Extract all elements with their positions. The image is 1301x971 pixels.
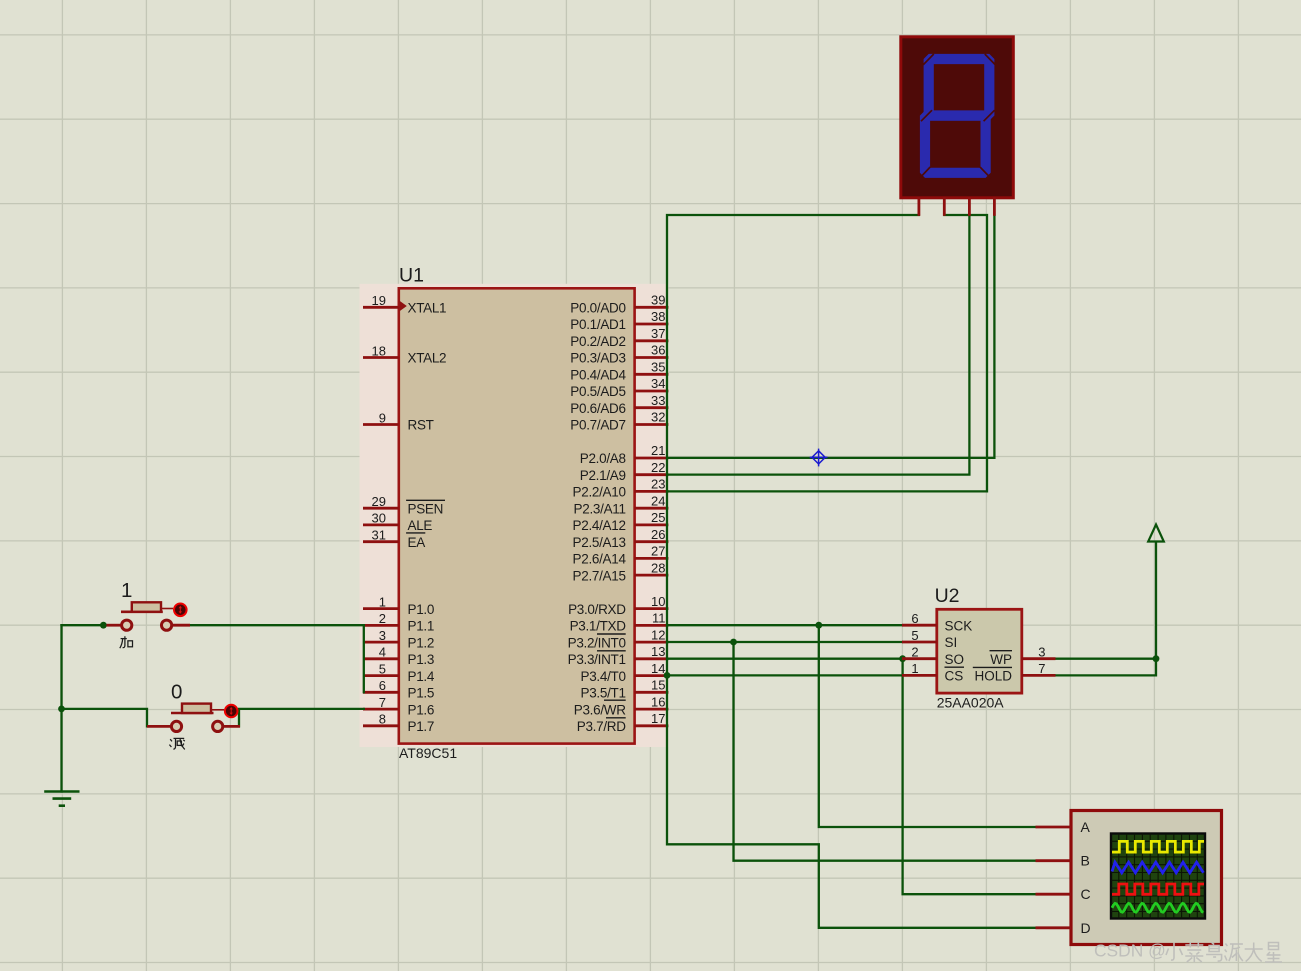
svg-text:2: 2: [911, 645, 918, 660]
svg-text:P3.6/WR: P3.6/WR: [574, 702, 626, 717]
svg-text:HOLD: HOLD: [974, 669, 1012, 684]
U1 pin 22 (P2.1/A9) stub: [580, 460, 669, 483]
wire button2 horizontal: [62, 709, 148, 727]
U2 pin 5 stub: [902, 628, 937, 643]
U1 pin 25 (P2.4/A12) stub: [573, 510, 669, 533]
wire display-c link: [668, 216, 969, 475]
svg-text:D: D: [1081, 920, 1091, 936]
U1 pin 18 (XTAL2) stub: [363, 343, 446, 365]
wire button2 to P1.6: [239, 709, 364, 727]
PSEN overline: [406, 499, 445, 501]
svg-text:EA: EA: [408, 535, 426, 550]
svg-text:16: 16: [651, 694, 665, 709]
svg-text:AT89C51: AT89C51: [399, 745, 457, 761]
svg-text:2: 2: [379, 611, 386, 626]
EA overline: [406, 532, 425, 534]
svg-text:P2.7/A15: P2.7/A15: [573, 568, 626, 583]
svg-text:36: 36: [651, 343, 665, 358]
scope input A stub: [1036, 826, 1072, 829]
wire SO branch to scope C: [903, 659, 1036, 895]
svg-text:34: 34: [651, 376, 665, 391]
svg-text:P0.2/AD2: P0.2/AD2: [570, 334, 625, 349]
U1 pin 3 (P1.2) stub: [363, 628, 434, 650]
watermark 星: [1265, 943, 1282, 963]
mcu U1 AT89C51: [360, 265, 669, 762]
svg-text:4: 4: [379, 645, 386, 660]
junction SCK/scopeA: [815, 622, 822, 629]
push button "1" (add): [106, 579, 190, 630]
U2 pin 2 stub: [902, 645, 937, 660]
oscilloscope screen: [1111, 834, 1205, 919]
svg-text:P3.0/RXD: P3.0/RXD: [568, 602, 626, 617]
U1 pin 15 (P3.5/T1) stub: [581, 678, 669, 701]
svg-text:P3.3/INT1: P3.3/INT1: [568, 652, 626, 667]
junction SO/scopeC: [899, 655, 906, 662]
U1 pin 1 (P1.0) stub: [363, 594, 434, 616]
trace B blue: [1112, 862, 1203, 873]
WR overline: [604, 699, 626, 701]
U1 pin 11 (P3.1/TXD) stub: [570, 611, 669, 634]
svg-text:P0.1/AD1: P0.1/AD1: [570, 317, 625, 332]
INT0 overline: [597, 633, 626, 635]
trace C red: [1112, 884, 1204, 894]
svg-text:C: C: [1081, 886, 1091, 902]
svg-text:25AA020A: 25AA020A: [937, 695, 1005, 711]
U1 pin 36 (P0.3/AD3) stub: [570, 343, 668, 366]
svg-text:ALE: ALE: [408, 518, 433, 533]
U1 pin 4 (P1.3) stub: [363, 645, 434, 667]
U1 pin 28 (P2.7/A15) stub: [573, 560, 669, 583]
svg-text:13: 13: [651, 644, 665, 659]
display pin 2 stub: [943, 197, 946, 216]
scope input C stub: [1036, 893, 1072, 896]
svg-text:P2.5/A13: P2.5/A13: [573, 535, 626, 550]
svg-text:32: 32: [651, 410, 665, 425]
svg-text:30: 30: [372, 511, 386, 526]
svg-text:CS: CS: [945, 669, 964, 684]
origin marker (blue crosshair): [810, 449, 828, 467]
trace A yellow: [1112, 841, 1204, 852]
U1 pin 14 (P3.4/T0) stub: [581, 661, 669, 684]
svg-text:7: 7: [379, 695, 386, 710]
7-seg segment notches: [919, 54, 995, 178]
svg-text:XTAL2: XTAL2: [408, 351, 447, 366]
svg-text:26: 26: [651, 527, 665, 542]
svg-text:P1.5: P1.5: [408, 686, 435, 701]
svg-text:21: 21: [651, 443, 665, 458]
trace D green: [1112, 903, 1204, 912]
svg-text:P1.1: P1.1: [408, 619, 435, 634]
svg-text:6: 6: [911, 611, 918, 626]
7-seg digit 8 segments: [925, 59, 989, 173]
U1 pin 21 (P2.0/A8) stub: [580, 443, 669, 466]
svg-text:P1.3: P1.3: [408, 652, 435, 667]
junction WP/HOLD/power: [1153, 655, 1160, 662]
U1 pin 37 (P0.2/AD2) stub: [570, 326, 668, 349]
eeprom U2 25AA020A: [935, 585, 1022, 711]
svg-text:P1.0: P1.0: [408, 602, 435, 617]
svg-text:RST: RST: [408, 418, 434, 433]
U2 pin 6 stub: [902, 611, 937, 626]
wire P3.4 to U2 CS: [668, 674, 902, 676]
U1 pin 24 (P2.3/A11) stub: [574, 493, 669, 516]
oscilloscope: [1036, 811, 1222, 945]
svg-text:22: 22: [651, 460, 665, 475]
svg-text:9: 9: [379, 410, 386, 425]
svg-text:18: 18: [372, 343, 386, 358]
svg-text:27: 27: [651, 544, 665, 559]
U1 pin 2 (P1.1) stub: [363, 611, 434, 633]
svg-text:A: A: [1081, 819, 1091, 835]
U1 pin 27 (P2.6/A14) stub: [573, 544, 669, 567]
svg-text:8: 8: [379, 712, 386, 727]
U2 pin 7 stub: [1022, 661, 1056, 676]
wire SCK branch to scope A: [819, 625, 1036, 827]
svg-text:0: 0: [171, 681, 182, 704]
U2 pin 3 stub: [1022, 645, 1056, 660]
svg-text:B: B: [1081, 853, 1090, 869]
svg-text:29: 29: [372, 494, 386, 509]
svg-text:U2: U2: [935, 585, 960, 607]
svg-text:28: 28: [651, 560, 665, 575]
wire P1.1-P1.5 bus vertical: [363, 625, 365, 692]
svg-text:P1.6: P1.6: [408, 702, 435, 717]
svg-text:1: 1: [121, 579, 132, 602]
watermark 大: [1245, 943, 1263, 962]
junction P3.4 node: [664, 672, 671, 679]
svg-text:33: 33: [651, 393, 665, 408]
U1 pin 5 (P1.4) stub: [363, 661, 435, 683]
wire P3.3 to U2 SO: [668, 658, 902, 660]
svg-text:P1.7: P1.7: [408, 719, 435, 734]
wire P3.2 to U2 SI: [668, 641, 902, 643]
wire ground vertical: [60, 625, 62, 791]
wire SI branch to scope B: [734, 642, 1036, 861]
svg-text:P3.1/TXD: P3.1/TXD: [570, 619, 627, 634]
svg-text:P0.0/AD0: P0.0/AD0: [570, 301, 625, 316]
watermark 菜: [1185, 942, 1203, 962]
watermark CSDN: [1094, 941, 1166, 961]
wire P3.1 to U2 SCK: [668, 624, 902, 626]
svg-text:P0.3/AD3: P0.3/AD3: [570, 351, 625, 366]
svg-text:14: 14: [651, 661, 665, 676]
svg-text:39: 39: [651, 293, 665, 308]
svg-text:P3.5/T1: P3.5/T1: [581, 686, 626, 701]
svg-text:WP: WP: [990, 652, 1012, 667]
wire button1 to P1.1 net (right half): [190, 624, 364, 626]
U1 pin 33 (P0.6/AD6) stub: [570, 393, 668, 416]
svg-text:11: 11: [652, 611, 666, 626]
U1 pin 38 (P0.1/AD1) stub: [570, 309, 668, 332]
svg-text:1: 1: [911, 661, 918, 676]
junction SI/scopeB: [730, 639, 737, 646]
watermark 小: [1166, 943, 1183, 961]
U1 pin 34 (P0.5/AD5) stub: [570, 376, 668, 399]
svg-text:P0.6/AD6: P0.6/AD6: [570, 401, 625, 416]
U1 pin 31 (EA) stub: [363, 528, 425, 550]
svg-text:P2.1/A9: P2.1/A9: [580, 468, 626, 483]
display pin 1 stub: [918, 197, 921, 216]
U1 pin 7 (P1.6) stub: [363, 695, 434, 717]
U1 pin 30 (ALE) stub: [363, 511, 432, 533]
svg-text:1: 1: [379, 594, 386, 609]
U1 pin 19 (XTAL1) stub: [363, 293, 446, 315]
svg-text:P2.4/A12: P2.4/A12: [573, 518, 626, 533]
U1 pin 23 (P2.2/A10) stub: [573, 477, 669, 500]
U2 pin 1 stub: [902, 661, 937, 676]
svg-text:P0.7/AD7: P0.7/AD7: [570, 418, 625, 433]
svg-text:P3.2/INT0: P3.2/INT0: [568, 635, 626, 650]
U1 pin 35 (P0.4/AD4) stub: [570, 360, 668, 383]
label 加 (add): [120, 636, 133, 648]
svg-text:P1.4: P1.4: [408, 669, 435, 684]
wire U2 WP to power: [1056, 658, 1157, 660]
U1 pin 29 (PSEN) stub: [363, 494, 443, 516]
svg-text:SCK: SCK: [945, 618, 973, 633]
U1 pin 13 (P3.3/INT1) stub: [568, 644, 669, 667]
U1 pin 10 (P3.0/RXD) stub: [568, 594, 668, 617]
junction ground/button2: [58, 706, 65, 713]
svg-text:SI: SI: [945, 635, 958, 650]
svg-text:3: 3: [379, 628, 386, 643]
XTAL1 clock arrow: [400, 301, 407, 311]
svg-text:SO: SO: [945, 652, 965, 667]
wire U2 HOLD to power: [1056, 542, 1157, 675]
U1 pin 16 (P3.6/WR) stub: [574, 694, 669, 717]
svg-text:5: 5: [379, 661, 386, 676]
INT1 overline: [597, 650, 626, 652]
U1 pin 26 (P2.5/A13) stub: [573, 527, 669, 550]
label 减 (subtract): [169, 738, 184, 749]
U1 pin 12 (P3.2/INT0) stub: [568, 627, 669, 650]
svg-text:5: 5: [911, 628, 918, 643]
svg-text:17: 17: [651, 711, 665, 726]
watermark 鸟: [1206, 942, 1222, 961]
7-segment display: [901, 37, 1014, 216]
svg-text:37: 37: [651, 326, 665, 341]
svg-text:P0.5/AD5: P0.5/AD5: [570, 384, 625, 399]
push button "0" (subtract): [147, 681, 240, 732]
wire display-a top link: [667, 215, 1036, 928]
svg-text:P0.4/AD4: P0.4/AD4: [570, 368, 626, 383]
U1 pin 8 (P1.7) stub: [363, 712, 434, 734]
U1 pin 32 (P0.7/AD7) stub: [570, 410, 668, 433]
svg-text:CSDN @: CSDN @: [1094, 941, 1166, 961]
svg-text:15: 15: [651, 678, 665, 693]
svg-text:6: 6: [379, 678, 386, 693]
junction button1/ground: [100, 622, 107, 629]
svg-text:25: 25: [651, 510, 665, 525]
RD overline: [606, 717, 626, 719]
svg-text:3: 3: [1038, 645, 1045, 660]
svg-text:7: 7: [1038, 661, 1045, 676]
svg-text:PSEN: PSEN: [408, 501, 444, 516]
svg-text:10: 10: [651, 594, 665, 609]
svg-text:24: 24: [651, 493, 665, 508]
display pin 3 stub: [968, 197, 971, 216]
scope input B stub: [1036, 859, 1072, 862]
U1 pin 9 (RST) stub: [363, 410, 434, 432]
scope input D stub: [1036, 926, 1072, 929]
svg-text:P2.3/A11: P2.3/A11: [574, 501, 626, 516]
power symbol (arrow up): [1148, 525, 1164, 542]
U1 pin 39 (P0.0/AD0) stub: [570, 293, 668, 316]
wire button1 to P1.1 net (left half): [62, 624, 114, 626]
svg-text:12: 12: [651, 627, 665, 642]
U1 pin 6 (P1.5) stub: [363, 678, 434, 700]
svg-text:XTAL1: XTAL1: [408, 301, 447, 316]
display pin 4 stub: [993, 197, 996, 216]
svg-text:38: 38: [651, 309, 665, 324]
U1 pin 17 (P3.7/RD) stub: [577, 711, 669, 734]
svg-text:35: 35: [651, 360, 665, 375]
svg-text:P3.7/RD: P3.7/RD: [577, 719, 626, 734]
wire display-d link: [668, 216, 994, 458]
svg-text:P2.0/A8: P2.0/A8: [580, 451, 626, 466]
svg-text:P2.6/A14: P2.6/A14: [573, 552, 627, 567]
svg-text:P3.4/T0: P3.4/T0: [581, 669, 626, 684]
svg-text:P1.2: P1.2: [408, 635, 435, 650]
watermark 派: [1225, 944, 1243, 962]
svg-text:31: 31: [372, 528, 386, 543]
svg-text:P2.2/A10: P2.2/A10: [573, 485, 626, 500]
svg-text:23: 23: [651, 477, 665, 492]
svg-text:U1: U1: [399, 265, 424, 287]
wire display-b link: [668, 215, 987, 491]
ground symbol: [44, 792, 79, 806]
svg-text:19: 19: [372, 293, 386, 308]
